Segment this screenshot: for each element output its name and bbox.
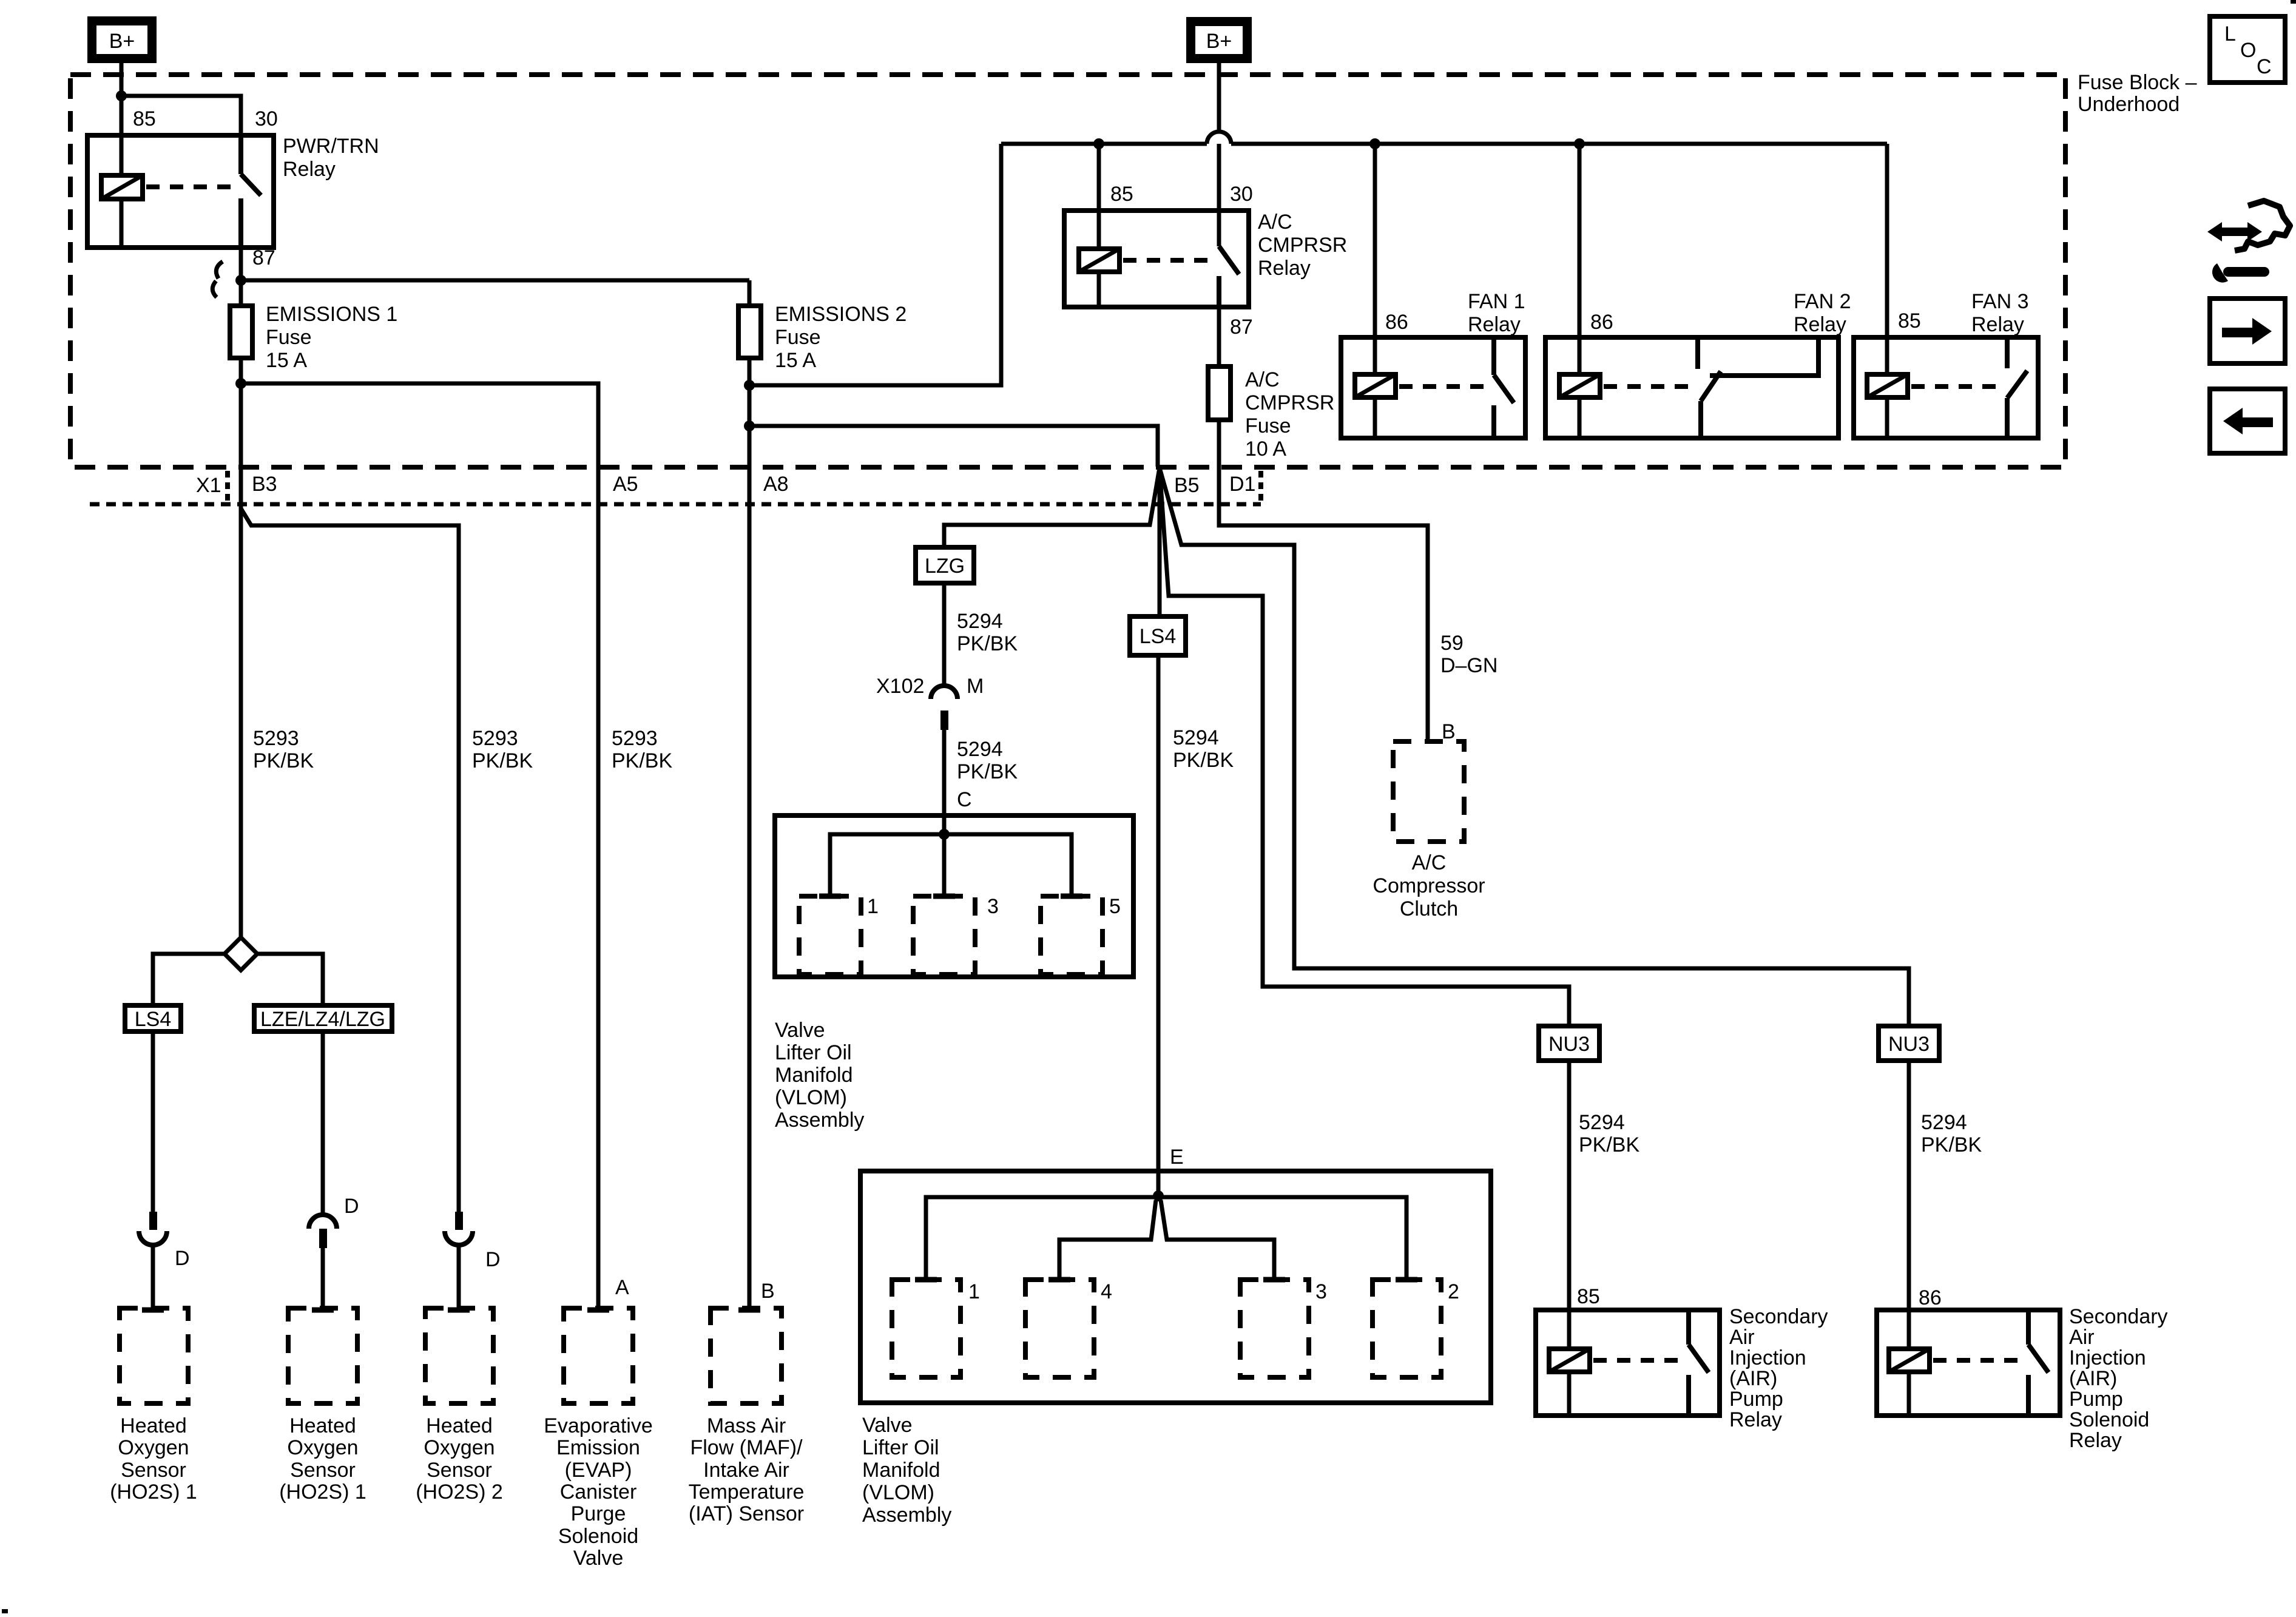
connector VLOM lower pin 4 xyxy=(1025,1280,1094,1377)
svg-text:Relay: Relay xyxy=(2069,1429,2122,1452)
wire to B5 connector xyxy=(749,426,1158,467)
wire D1 down and across to clutch xyxy=(1219,420,1428,741)
connector row fine dashed line X1 xyxy=(90,502,1261,507)
engine code box LS4 (center) xyxy=(1130,616,1186,655)
svg-text:Sensor: Sensor xyxy=(121,1459,186,1482)
node junction A/C relay coil xyxy=(1093,138,1104,149)
svg-text:3: 3 xyxy=(987,895,999,918)
inline connector stub (HO2S1 b) xyxy=(319,1229,327,1248)
wire branch to pin 30 xyxy=(121,96,241,135)
svg-text:Heated: Heated xyxy=(120,1414,187,1437)
svg-text:B+: B+ xyxy=(1206,30,1232,53)
connector C2 Heated Oxygen Sensor 1 xyxy=(288,1308,357,1403)
svg-text:5294: 5294 xyxy=(1921,1111,1967,1134)
svg-text:2: 2 xyxy=(1448,1280,1459,1303)
icon back arrow box xyxy=(2210,389,2285,453)
svg-text:Assembly: Assembly xyxy=(775,1109,864,1132)
svg-text:Valve: Valve xyxy=(862,1414,913,1437)
svg-text:Heated: Heated xyxy=(426,1414,493,1437)
svg-text:Relay: Relay xyxy=(1258,257,1311,280)
node junction FAN1 coil xyxy=(1369,138,1380,149)
svg-text:85: 85 xyxy=(1110,183,1133,206)
wire B+ center down to pin 30 xyxy=(1217,63,1221,132)
svg-text:X1: X1 xyxy=(196,474,221,497)
relay FAN 3 xyxy=(1854,144,2038,438)
svg-text:FAN 2: FAN 2 xyxy=(1794,290,1851,313)
svg-text:Secondary: Secondary xyxy=(1729,1305,1828,1328)
svg-text:5294: 5294 xyxy=(957,738,1003,761)
fuse EMISSIONS 2 feed wire xyxy=(748,280,752,306)
pin T-bar VLOM upper 5 xyxy=(1061,894,1082,899)
wire VLOM upper spread xyxy=(830,834,1072,896)
svg-text:CMPRSR: CMPRSR xyxy=(1245,391,1334,414)
svg-text:Relay: Relay xyxy=(1729,1408,1782,1431)
svg-text:87: 87 xyxy=(1230,316,1253,339)
svg-text:LZE/LZ4/LZG: LZE/LZ4/LZG xyxy=(260,1008,385,1031)
svg-text:B3: B3 xyxy=(252,473,277,496)
node B5 funnel xyxy=(944,468,1909,1026)
connector C5 MAF/IAT sensor xyxy=(711,1308,782,1403)
wire diamond to LS4 xyxy=(153,954,225,1005)
svg-text:Intake Air: Intake Air xyxy=(703,1459,789,1482)
pin T-bar VLOM lower 1 xyxy=(915,1277,937,1283)
pin T-bar HO2S1 xyxy=(142,1308,164,1313)
svg-text:A8: A8 xyxy=(763,473,789,496)
wire to HO2S2 connector xyxy=(457,1244,461,1308)
inline connector stub (HO2S2) xyxy=(455,1212,463,1230)
svg-text:Manifold: Manifold xyxy=(862,1459,940,1482)
svg-text:D1: D1 xyxy=(1229,473,1255,496)
corner mark bottom left xyxy=(2,1609,8,1613)
svg-text:Relay: Relay xyxy=(283,158,336,181)
svg-text:59: 59 xyxy=(1440,632,1464,655)
svg-text:Air: Air xyxy=(1729,1326,1755,1349)
svg-text:PK/BK: PK/BK xyxy=(1173,749,1234,772)
connector VLOM lower pin 1 xyxy=(892,1280,961,1377)
svg-text:EMISSIONS 1: EMISSIONS 1 xyxy=(266,303,397,326)
fuse EMISSIONS 2 15 A xyxy=(738,306,761,358)
wire into VLOM upper xyxy=(942,815,947,896)
node junction VLOM lower xyxy=(1153,1190,1164,1201)
node junction fuse2 to relay bus xyxy=(744,380,755,391)
wire VLOM lower spread outer xyxy=(926,1197,1406,1280)
svg-text:Temperature: Temperature xyxy=(689,1480,805,1504)
svg-text:LS4: LS4 xyxy=(1140,625,1177,648)
svg-text:A/C: A/C xyxy=(1412,851,1447,874)
svg-text:LS4: LS4 xyxy=(135,1008,172,1031)
svg-text:(HO2S) 1: (HO2S) 1 xyxy=(110,1480,197,1504)
svg-text:Pump: Pump xyxy=(2069,1388,2123,1411)
svg-text:A5: A5 xyxy=(613,473,638,496)
splice X102 arc xyxy=(931,686,957,699)
relay Secondary Air Injection (AIR) Pump xyxy=(1536,1310,1720,1416)
inline connector stub (HO2S1) xyxy=(149,1212,157,1230)
pin T-bar MAF xyxy=(738,1308,760,1313)
svg-text:FAN 3: FAN 3 xyxy=(1971,290,2028,313)
svg-text:Solenoid: Solenoid xyxy=(2069,1408,2149,1431)
svg-text:Flow (MAF)/: Flow (MAF)/ xyxy=(690,1436,803,1459)
svg-text:Purge: Purge xyxy=(571,1502,626,1525)
engine code box LS4 (left) xyxy=(125,1005,181,1031)
wire B5 to LS4 branch xyxy=(1158,468,1162,616)
svg-text:NU3: NU3 xyxy=(1888,1033,1930,1056)
svg-text:Assembly: Assembly xyxy=(862,1504,951,1527)
connector VLOM upper pin 5 xyxy=(1041,896,1102,974)
svg-text:85: 85 xyxy=(133,107,156,130)
svg-text:(EVAP): (EVAP) xyxy=(565,1459,632,1482)
wire B5 to NU3 right branch xyxy=(1160,468,1909,1026)
wire LZE down to splice xyxy=(321,1031,325,1215)
wire branch to EVAP (A5) xyxy=(241,383,598,1308)
svg-text:Valve: Valve xyxy=(775,1019,825,1042)
engine code box LZG xyxy=(916,547,974,583)
svg-text:(AIR): (AIR) xyxy=(1729,1367,1777,1390)
svg-text:Relay: Relay xyxy=(1794,313,1846,336)
wire relay coil bus xyxy=(1001,142,1207,146)
svg-text:Mass Air: Mass Air xyxy=(707,1414,786,1437)
svg-text:Clutch: Clutch xyxy=(1400,897,1458,920)
inline connector arc (HO2S1) xyxy=(139,1231,167,1245)
svg-text:85: 85 xyxy=(1898,309,1921,333)
connector A/C Compressor Clutch xyxy=(1393,741,1464,842)
svg-text:D: D xyxy=(485,1248,501,1271)
wire B3 main down xyxy=(239,383,243,937)
svg-text:5293: 5293 xyxy=(612,727,658,750)
svg-text:(HO2S) 2: (HO2S) 2 xyxy=(416,1480,503,1504)
wire to HO2S1 connector xyxy=(151,1244,155,1308)
svg-text:B: B xyxy=(1442,720,1456,743)
relay A/C CMPRSR xyxy=(1064,144,1249,307)
svg-text:Fuse: Fuse xyxy=(266,326,312,349)
wire B5 to LZG branch xyxy=(944,468,1160,547)
pin T-bar VLOM lower 3 xyxy=(1263,1277,1285,1283)
svg-text:CMPRSR: CMPRSR xyxy=(1258,234,1347,257)
svg-text:C: C xyxy=(2257,55,2272,78)
wire 87 to A/C fuse xyxy=(1217,307,1221,366)
pin T-bar VLOM upper 1 xyxy=(819,894,841,899)
svg-text:LZG: LZG xyxy=(925,555,965,578)
svg-text:Oxygen: Oxygen xyxy=(424,1436,495,1459)
svg-text:L: L xyxy=(2224,22,2236,46)
svg-text:D–GN: D–GN xyxy=(1440,654,1497,677)
svg-text:Oxygen: Oxygen xyxy=(287,1436,358,1459)
corner mark top right xyxy=(2291,0,2296,4)
svg-text:NU3: NU3 xyxy=(1548,1033,1590,1056)
relay FAN 2 xyxy=(1545,144,1838,438)
svg-text:5294: 5294 xyxy=(1579,1111,1625,1134)
relay Secondary Air Injection (AIR) Pump Solenoid xyxy=(1877,1310,2060,1416)
pin T-bar HO2S2 xyxy=(448,1308,470,1313)
svg-text:86: 86 xyxy=(1385,311,1408,334)
svg-text:Valve: Valve xyxy=(573,1547,624,1570)
svg-text:A/C: A/C xyxy=(1245,368,1280,391)
svg-text:Oxygen: Oxygen xyxy=(118,1436,189,1459)
connector separator D1 xyxy=(1258,471,1263,502)
wire pin 87 down xyxy=(239,248,243,306)
connector VLOM upper pin 3 xyxy=(913,896,975,974)
wire LS4 down to splice xyxy=(151,1031,155,1214)
svg-text:E: E xyxy=(1170,1146,1184,1169)
svg-text:5293: 5293 xyxy=(253,727,299,750)
svg-text:M: M xyxy=(967,675,984,698)
pin T-bar EVAP xyxy=(587,1308,609,1313)
svg-text:3: 3 xyxy=(1315,1280,1327,1303)
svg-text:(IAT) Sensor: (IAT) Sensor xyxy=(689,1502,804,1525)
svg-text:PK/BK: PK/BK xyxy=(1579,1133,1639,1156)
svg-text:Fuse: Fuse xyxy=(775,326,821,349)
node junction at PWR/TRN relay feed xyxy=(116,90,127,101)
svg-text:Heated: Heated xyxy=(289,1414,356,1437)
wire VLOM lower V split xyxy=(1059,1200,1156,1280)
node junction fuse2 to B5 feed xyxy=(744,420,755,431)
wire LS4 down to VLOM lower xyxy=(1156,655,1161,1197)
svg-text:85: 85 xyxy=(1577,1285,1600,1308)
wire 87 output bus to EMISSIONS 2 fuse xyxy=(241,279,749,283)
wire B+ left feed down into fuse block xyxy=(120,63,124,135)
wire to HO2S1b connector xyxy=(321,1248,325,1308)
svg-text:PWR/TRN: PWR/TRN xyxy=(283,135,379,158)
power symbol B+ (left) xyxy=(87,16,157,63)
connector VLOM lower pin 2 xyxy=(1373,1280,1441,1377)
engine code box LZE/LZ4/LZG xyxy=(254,1005,392,1031)
node junction VLOM upper xyxy=(939,829,950,840)
svg-text:Secondary: Secondary xyxy=(2069,1305,2168,1328)
relay FAN 1 xyxy=(1341,144,1525,438)
svg-text:Evaporative: Evaporative xyxy=(544,1414,653,1437)
svg-text:EMISSIONS 2: EMISSIONS 2 xyxy=(775,303,907,326)
splice break marks xyxy=(216,262,223,279)
svg-text:A: A xyxy=(615,1276,629,1299)
wire fuse2 output up to relay coil bus xyxy=(749,144,1001,385)
svg-text:1: 1 xyxy=(867,895,879,918)
svg-text:(VLOM): (VLOM) xyxy=(862,1481,934,1504)
svg-text:Solenoid: Solenoid xyxy=(558,1525,638,1548)
svg-text:O: O xyxy=(2240,39,2256,62)
svg-text:87: 87 xyxy=(252,246,275,269)
wire LZG down to X102 xyxy=(942,583,947,687)
svg-text:Canister: Canister xyxy=(560,1480,637,1504)
crossover hop at B+ wire xyxy=(1207,132,1231,144)
svg-text:(VLOM): (VLOM) xyxy=(775,1086,847,1109)
svg-text:FAN 1: FAN 1 xyxy=(1468,290,1525,313)
svg-text:10 A: 10 A xyxy=(1245,437,1286,461)
svg-text:PK/BK: PK/BK xyxy=(1921,1133,1982,1156)
splice diamond xyxy=(225,937,257,970)
svg-text:1: 1 xyxy=(968,1280,980,1303)
valve lifter oil manifold assembly box (lower) xyxy=(860,1171,1491,1403)
wire below fuse 1 xyxy=(239,358,243,383)
svg-text:5293: 5293 xyxy=(472,727,518,750)
svg-text:X102: X102 xyxy=(876,675,924,698)
svg-text:(HO2S) 1: (HO2S) 1 xyxy=(279,1480,366,1504)
svg-text:C: C xyxy=(957,788,972,811)
svg-text:Relay: Relay xyxy=(1468,313,1521,336)
svg-text:Pump: Pump xyxy=(1729,1388,1783,1411)
svg-text:15 A: 15 A xyxy=(266,349,307,372)
svg-text:Compressor: Compressor xyxy=(1373,874,1485,897)
connector VLOM upper pin 1 xyxy=(799,896,861,974)
svg-text:PK/BK: PK/BK xyxy=(253,749,314,772)
node junction FAN2 coil xyxy=(1574,138,1585,149)
wire below fuse 2 down to A8 and MAF xyxy=(748,358,752,1308)
svg-text:15 A: 15 A xyxy=(775,349,816,372)
pin T-bar VLOM lower 2 xyxy=(1396,1277,1417,1283)
wire NU3 left down to AIR pump relay xyxy=(1567,1061,1572,1310)
wire X102 down to VLOM C xyxy=(942,730,947,815)
svg-text:Underhood: Underhood xyxy=(2078,93,2180,116)
fuse A/C CMPRSR 10 A xyxy=(1208,366,1231,420)
wire NU3 right down to AIR solenoid relay xyxy=(1907,1061,1911,1310)
svg-text:Fuse Block –: Fuse Block – xyxy=(2078,71,2197,94)
connector C3 Heated Oxygen Sensor 2 xyxy=(425,1308,493,1403)
svg-text:5294: 5294 xyxy=(957,610,1003,633)
fuse block - underhood dashed boundary xyxy=(70,75,2065,467)
svg-text:PK/BK: PK/BK xyxy=(957,760,1018,783)
svg-text:Lifter Oil: Lifter Oil xyxy=(775,1041,852,1064)
svg-text:B5: B5 xyxy=(1174,474,1200,497)
svg-text:Lifter Oil: Lifter Oil xyxy=(862,1436,939,1459)
svg-text:D: D xyxy=(344,1195,359,1218)
pin T-bar HO2S1b xyxy=(312,1308,334,1313)
svg-text:30: 30 xyxy=(1230,183,1253,206)
power symbol B+ (center) xyxy=(1186,17,1252,63)
svg-text:D: D xyxy=(175,1247,190,1270)
svg-text:86: 86 xyxy=(1919,1286,1942,1309)
svg-text:5294: 5294 xyxy=(1173,726,1219,749)
splice X102 stub xyxy=(940,711,948,730)
svg-text:4: 4 xyxy=(1101,1280,1112,1303)
svg-text:Manifold: Manifold xyxy=(775,1064,853,1087)
icon data link arrows and wrench xyxy=(2207,201,2290,283)
icon forward arrow box xyxy=(2210,299,2285,363)
LOC legend box xyxy=(2210,16,2285,83)
svg-text:PK/BK: PK/BK xyxy=(472,749,533,772)
svg-text:5: 5 xyxy=(1109,895,1121,918)
svg-text:Emission: Emission xyxy=(556,1436,640,1459)
svg-text:Air: Air xyxy=(2069,1326,2095,1349)
svg-text:30: 30 xyxy=(255,107,278,130)
inline connector arc (HO2S1 b) xyxy=(309,1215,337,1229)
svg-text:Sensor: Sensor xyxy=(427,1459,492,1482)
svg-text:Injection: Injection xyxy=(1729,1346,1806,1369)
connector C1 Heated Oxygen Sensor 1 xyxy=(120,1308,188,1403)
svg-text:Relay: Relay xyxy=(1971,313,2024,336)
svg-text:Sensor: Sensor xyxy=(290,1459,356,1482)
fuse EMISSIONS 1 15 A xyxy=(230,306,252,358)
option code box NU3 (left) xyxy=(1539,1026,1599,1061)
wire branch kink to HO2S2 drop xyxy=(241,508,459,1213)
svg-text:(AIR): (AIR) xyxy=(2069,1367,2117,1390)
connector separator X1 xyxy=(225,471,230,502)
connector C4 EVAP purge solenoid xyxy=(564,1308,633,1403)
connector VLOM lower pin 3 xyxy=(1240,1280,1309,1377)
node junction 87 output xyxy=(235,275,246,286)
svg-text:Injection: Injection xyxy=(2069,1346,2146,1369)
svg-text:B: B xyxy=(761,1280,775,1303)
option code box NU3 (right) xyxy=(1879,1026,1939,1061)
valve lifter oil manifold assembly box (upper) xyxy=(775,815,1133,977)
svg-text:PK/BK: PK/BK xyxy=(957,632,1018,655)
wire B5 to NU3 left branch xyxy=(1160,468,1569,1026)
svg-text:B+: B+ xyxy=(109,30,135,53)
svg-text:86: 86 xyxy=(1590,311,1613,334)
pin T-bar VLOM lower 4 xyxy=(1048,1277,1070,1283)
pin T-bar VLOM upper 3 xyxy=(933,894,955,899)
relay PWR/TRN xyxy=(87,135,274,248)
svg-text:A/C: A/C xyxy=(1258,211,1292,234)
node junction below EMISSIONS 1 fuse xyxy=(235,378,246,389)
svg-text:PK/BK: PK/BK xyxy=(612,749,672,772)
wire diamond to LZE/LZ4/LZG xyxy=(257,954,323,1005)
inline connector arc (HO2S2) xyxy=(445,1231,473,1245)
svg-text:Fuse: Fuse xyxy=(1245,414,1291,437)
